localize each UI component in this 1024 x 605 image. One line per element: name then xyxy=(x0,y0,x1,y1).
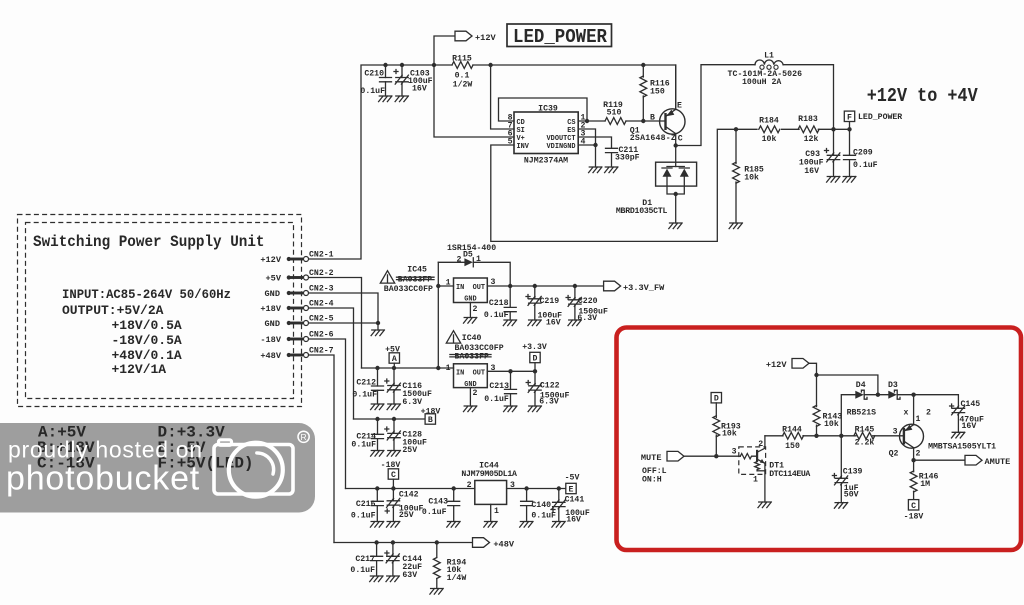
svg-text:1: 1 xyxy=(476,255,481,264)
IC40 labels xyxy=(450,334,504,362)
svg-text:C218: C218 xyxy=(489,299,509,308)
capacitor C144 xyxy=(385,543,422,581)
capacitor C143 xyxy=(422,489,460,522)
connector pin CN2-5 xyxy=(287,315,334,326)
svg-text:NJM2374AM: NJM2374AM xyxy=(524,157,568,166)
svg-text:12k: 12k xyxy=(804,134,819,144)
transistor DT1 DTC114EUA xyxy=(732,436,811,502)
svg-text:-18V/0.5A: -18V/0.5A xyxy=(112,333,182,348)
ground CN2 GND xyxy=(371,330,384,336)
svg-text:+48V: +48V xyxy=(260,351,281,361)
svg-text:0.1uF: 0.1uF xyxy=(853,161,878,170)
svg-text:C213: C213 xyxy=(489,382,509,391)
svg-text:CN2-2: CN2-2 xyxy=(309,269,334,278)
wire row B +18V xyxy=(354,418,427,420)
ground C218 xyxy=(503,320,516,326)
svg-text:+18V: +18V xyxy=(260,304,281,314)
warning triangle IC45 xyxy=(380,271,394,283)
wire bottom row +48V xyxy=(334,542,473,544)
wire IC45 out row xyxy=(487,285,603,287)
svg-text:2SA1648-Z: 2SA1648-Z xyxy=(630,134,676,143)
ground C140 xyxy=(520,522,533,528)
svg-text:6.3V: 6.3V xyxy=(539,398,559,407)
wire mute base row xyxy=(765,435,904,437)
svg-text:C143: C143 xyxy=(428,498,448,507)
capacitor C103 xyxy=(394,65,433,96)
op-amp U IC39 NJM2374AM xyxy=(508,105,586,166)
wire R119 to base node B xyxy=(626,120,666,122)
ground C217 xyxy=(370,576,383,582)
capacitor C141 xyxy=(551,489,590,525)
connector pin CN2-4 xyxy=(287,300,334,311)
legend voltages xyxy=(37,424,254,473)
connector pin CN2-3 xyxy=(287,285,334,296)
svg-text:RB521S: RB521S xyxy=(847,409,877,418)
node +48V flag xyxy=(473,538,515,550)
svg-text:50V: 50V xyxy=(844,491,859,500)
switching power supply unit outer dashed box xyxy=(18,215,302,407)
ground C143 xyxy=(447,522,460,528)
svg-text:B: B xyxy=(650,114,655,123)
wire V+ feed xyxy=(434,65,514,137)
capacitor C219 xyxy=(526,286,562,328)
wire +12V bus left with CN2-1 riser xyxy=(309,65,453,259)
svg-text:C: C xyxy=(911,502,916,511)
node D flag mute xyxy=(711,393,721,404)
svg-text:100uH 2A: 100uH 2A xyxy=(742,78,781,87)
svg-text:Q2: Q2 xyxy=(889,450,899,459)
svg-text:+12V: +12V xyxy=(260,255,281,265)
diode D5 1SR154-400 xyxy=(447,244,496,267)
wire IC45 input xyxy=(438,285,453,287)
ground C93 xyxy=(827,177,840,183)
svg-text:2: 2 xyxy=(467,481,472,490)
resistor R146 xyxy=(910,460,938,499)
wire CS-CD feedback loop xyxy=(499,98,588,121)
wire CN2-4 +18V to row B xyxy=(309,308,354,419)
diode D4 RB521S xyxy=(855,381,867,399)
svg-text:0.1uF: 0.1uF xyxy=(484,311,509,320)
svg-text:63V: 63V xyxy=(402,571,417,580)
ground R185 xyxy=(729,223,742,229)
svg-text:OUTPUT:+5V/2A: OUTPUT:+5V/2A xyxy=(62,303,164,318)
svg-text:INPUT:AC85-264V 50/60Hz: INPUT:AC85-264V 50/60Hz xyxy=(62,287,231,302)
ground C210 xyxy=(379,96,392,102)
svg-text:IN: IN xyxy=(456,284,464,292)
LED_POWER title box xyxy=(507,24,612,48)
node +12V flag mute xyxy=(766,359,809,371)
ground D1 xyxy=(669,223,682,229)
svg-text:2: 2 xyxy=(916,450,921,459)
svg-text:C209: C209 xyxy=(853,149,873,158)
inductor L1 TC-101M-2A-5026 xyxy=(728,52,803,88)
svg-text:NJM79M05DL1A: NJM79M05DL1A xyxy=(461,470,517,479)
placeholder groups xyxy=(309,24,978,259)
wire D4 cathode to junction xyxy=(864,394,888,396)
svg-text:16V: 16V xyxy=(566,516,581,525)
ground IC44 pin1 xyxy=(484,504,497,527)
node +12V flag riser xyxy=(434,36,455,65)
svg-text:CN2-6: CN2-6 xyxy=(309,331,334,340)
regulator IC40 BA033CC0FP xyxy=(446,364,496,398)
svg-text:1M: 1M xyxy=(920,480,930,489)
svg-text:1: 1 xyxy=(446,364,451,373)
svg-text:ES: ES xyxy=(567,127,575,135)
svg-text:+3.3V_FW: +3.3V_FW xyxy=(623,283,665,293)
svg-text:+18V/0.5A: +18V/0.5A xyxy=(112,318,182,333)
wire CN2-2 +5V to row A xyxy=(309,278,362,369)
resistor R185 xyxy=(733,129,764,223)
svg-text:AMUTE: AMUTE xyxy=(985,457,1011,467)
svg-text:+12V: +12V xyxy=(475,33,496,43)
capacitor C145 xyxy=(950,400,984,433)
resistor R116 xyxy=(640,65,670,121)
svg-text:C219: C219 xyxy=(540,297,560,306)
svg-text:MUTE: MUTE xyxy=(641,453,662,463)
wire CN2-5 GND xyxy=(309,322,379,324)
svg-text:GND: GND xyxy=(265,319,280,329)
svg-text:10k: 10k xyxy=(744,172,759,182)
wire switch node up to L1 xyxy=(676,65,755,146)
resistor R115 xyxy=(452,55,473,90)
svg-text:LED_POWER: LED_POWER xyxy=(858,113,902,122)
svg-text:+3.3V: +3.3V xyxy=(522,343,547,352)
wire IC45 input riser from row A xyxy=(437,262,439,368)
svg-text:16V: 16V xyxy=(546,319,561,328)
wire INV feedback xyxy=(491,129,736,241)
resistor R183 xyxy=(798,115,819,144)
watermark camera icon xyxy=(214,440,293,497)
ground C128 xyxy=(387,451,400,457)
capacitor C211 xyxy=(578,137,639,167)
wire row C -18V xyxy=(346,488,475,490)
ground C214 xyxy=(371,451,384,457)
svg-text:10k: 10k xyxy=(762,134,777,144)
svg-text:2.2k: 2.2k xyxy=(855,438,875,448)
wire D5 loop xyxy=(438,262,510,286)
svg-text:INV: INV xyxy=(517,143,530,151)
wire MUTE to DT1 xyxy=(684,455,740,457)
svg-text:0.1uF: 0.1uF xyxy=(531,512,556,521)
ground C212 xyxy=(371,404,384,410)
node MUTE flag xyxy=(641,451,684,484)
node A flag +5V xyxy=(385,346,400,369)
svg-text:C139: C139 xyxy=(843,468,863,477)
resistor R193 xyxy=(713,403,741,456)
svg-text:1: 1 xyxy=(916,415,921,424)
resistor R144 xyxy=(782,426,803,452)
ground C209 xyxy=(843,177,856,183)
svg-text:C220: C220 xyxy=(578,297,598,306)
svg-text:IC44: IC44 xyxy=(479,461,499,470)
svg-text:CN2-1: CN2-1 xyxy=(309,251,334,260)
resistor R145 xyxy=(854,426,875,448)
node +12V flag xyxy=(455,31,496,43)
regulator IC44 NJM79M05DL1A xyxy=(461,461,517,516)
svg-text:+12V/1A: +12V/1A xyxy=(112,362,167,377)
capacitor C213 xyxy=(484,371,516,406)
svg-text:16V: 16V xyxy=(962,422,977,431)
svg-text:1: 1 xyxy=(753,476,758,485)
svg-text:0.1uF: 0.1uF xyxy=(422,508,447,517)
wire D4 anode branch xyxy=(841,395,855,436)
svg-text:C217: C217 xyxy=(355,555,375,564)
svg-text:C141: C141 xyxy=(565,496,585,505)
connector pin CN2-2 xyxy=(287,269,334,280)
svg-text:0.1: 0.1 xyxy=(455,72,470,81)
svg-text:C140: C140 xyxy=(531,501,551,510)
svg-text:+5V: +5V xyxy=(266,274,282,284)
mute section red highlight box xyxy=(617,328,1022,551)
svg-text:150: 150 xyxy=(785,442,800,451)
capacitor C218 xyxy=(484,286,516,320)
svg-text:DTC114EUA: DTC114EUA xyxy=(769,470,810,479)
svg-text:C142: C142 xyxy=(399,491,419,500)
svg-text:-18V: -18V xyxy=(260,335,281,345)
watermark registered mark xyxy=(298,431,309,442)
svg-text:D4: D4 xyxy=(856,381,866,390)
svg-text:OUT: OUT xyxy=(473,369,485,377)
svg-text:CD: CD xyxy=(517,119,525,127)
svg-text:16V: 16V xyxy=(804,167,819,176)
svg-text:+48V: +48V xyxy=(493,540,514,550)
svg-text:C210: C210 xyxy=(364,70,384,79)
svg-text:IC45: IC45 xyxy=(407,266,427,275)
resistor R184 xyxy=(759,117,780,144)
svg-text:R144: R144 xyxy=(782,426,802,435)
ground C116 xyxy=(387,404,400,410)
svg-text:V+: V+ xyxy=(517,135,525,143)
svg-text:SI: SI xyxy=(517,127,525,135)
ground DT1 xyxy=(758,502,771,508)
node B flag +18V xyxy=(421,408,441,426)
ground C141 xyxy=(552,522,565,528)
svg-text:0.1uF: 0.1uF xyxy=(360,87,385,96)
svg-text:CS: CS xyxy=(567,119,575,127)
svg-text:IN: IN xyxy=(456,369,464,377)
svg-text:C216: C216 xyxy=(356,500,376,509)
svg-text:E: E xyxy=(677,102,682,111)
ground C219 xyxy=(528,320,541,326)
svg-text:C212: C212 xyxy=(356,379,376,388)
wire +12V bus right xyxy=(473,65,676,109)
SPSU pin name labels xyxy=(260,255,281,361)
capacitor C217 xyxy=(350,543,382,577)
capacitor C140 xyxy=(521,489,556,522)
svg-text:ON:H: ON:H xyxy=(642,476,662,485)
svg-text:0.1uF: 0.1uF xyxy=(350,566,375,575)
svg-text:C122: C122 xyxy=(540,382,560,391)
svg-text:Switching Power Supply Unit: Switching Power Supply Unit xyxy=(33,233,265,251)
svg-text:B: B xyxy=(428,416,433,425)
svg-text:GND: GND xyxy=(265,289,280,299)
svg-text:0.1uF: 0.1uF xyxy=(484,395,509,404)
svg-text:2: 2 xyxy=(758,440,763,449)
ground C139 xyxy=(834,503,847,509)
svg-text:D5: D5 xyxy=(463,251,473,260)
svg-text:1/4W: 1/4W xyxy=(447,573,467,583)
svg-text:F: F xyxy=(847,113,852,122)
svg-text:1: 1 xyxy=(494,507,499,516)
svg-text:+12V: +12V xyxy=(766,360,787,370)
ground C220 xyxy=(568,320,581,326)
wire CS to R119 xyxy=(578,120,605,122)
capacitor C209 xyxy=(844,129,878,176)
connector pin CN2-1 xyxy=(287,251,334,262)
svg-text:C145: C145 xyxy=(961,400,981,409)
svg-text:10k: 10k xyxy=(722,429,737,439)
svg-text:510: 510 xyxy=(607,109,622,118)
capacitor C142 xyxy=(385,489,423,522)
svg-text:OUT: OUT xyxy=(473,284,485,292)
resistor R194 xyxy=(433,543,466,589)
svg-text:LED_POWER: LED_POWER xyxy=(513,26,607,48)
connector pin CN2-7 xyxy=(287,347,334,358)
svg-text:2: 2 xyxy=(926,409,931,418)
ground R194 xyxy=(430,589,443,595)
svg-text:2: 2 xyxy=(457,256,462,265)
switching power supply unit inner dashed box xyxy=(26,223,294,399)
svg-text:R115: R115 xyxy=(452,55,472,64)
wire ES to gnd xyxy=(578,129,595,167)
svg-text:+48V/0.1A: +48V/0.1A xyxy=(112,348,182,363)
svg-text:photobucket: photobucket xyxy=(6,460,200,498)
diode D3 RB521S xyxy=(888,381,900,399)
ground C142 xyxy=(387,522,400,528)
wire L1 to F node xyxy=(783,65,833,130)
node E flag -5V xyxy=(565,474,580,495)
wire IC44 out row -5V xyxy=(507,488,566,490)
svg-text:R: R xyxy=(301,432,307,442)
wire +12V to R143/D4 xyxy=(809,363,878,394)
resistor R119 xyxy=(603,101,626,124)
node F flag LED_POWER xyxy=(844,111,902,129)
svg-text:-5V: -5V xyxy=(565,474,580,483)
svg-text:E: E xyxy=(569,486,574,495)
node +3.3V_FW flag xyxy=(604,281,665,293)
capacitor C216 xyxy=(351,489,383,522)
resistor R143 xyxy=(813,375,842,436)
svg-text:CN2-3: CN2-3 xyxy=(309,285,334,294)
transistor Q2 MMBTSA1505YLT1 xyxy=(889,424,997,458)
transistor Q1 2SA1648-Z xyxy=(630,102,685,144)
node C flag -18V mute xyxy=(904,500,924,522)
svg-text:IC40: IC40 xyxy=(462,334,482,343)
ground pins ES/GND xyxy=(589,167,602,173)
ground IC45 gnd pin xyxy=(464,303,477,324)
ground C213 xyxy=(504,406,517,412)
capacitor C214 xyxy=(351,419,383,451)
ground C122 xyxy=(528,406,541,412)
wire Q2 collector to AMUTE xyxy=(914,448,965,461)
capacitor C220 xyxy=(566,286,608,323)
IC45 labels xyxy=(384,266,434,295)
svg-text:2: 2 xyxy=(473,389,478,398)
node D flag +3.3V xyxy=(522,343,547,371)
svg-text:C: C xyxy=(678,135,683,144)
svg-text:0.1uF: 0.1uF xyxy=(351,441,376,450)
svg-text:MMBTSA1505YLT1: MMBTSA1505YLT1 xyxy=(928,443,996,452)
svg-text:R145: R145 xyxy=(855,426,875,435)
junction dots on bus xyxy=(383,63,387,67)
wire Q2 emitter riser xyxy=(913,395,915,425)
ground C144 xyxy=(386,576,399,582)
capacitor C128 xyxy=(385,419,427,455)
regulator IC45 BA033CC0FP xyxy=(446,278,496,314)
svg-text:330pF: 330pF xyxy=(615,154,640,163)
wire row A +5V xyxy=(362,367,454,369)
node AMUTE flag xyxy=(965,455,1010,467)
capacitor C116 xyxy=(385,368,432,407)
node C flag -18V xyxy=(381,461,401,489)
photobucket watermark panel xyxy=(0,423,315,513)
svg-text:L1: L1 xyxy=(764,52,774,61)
wire SI feed xyxy=(491,65,514,129)
svg-text:6.3V: 6.3V xyxy=(402,398,422,407)
capacitor C139 xyxy=(832,436,862,503)
ground C103 xyxy=(395,96,408,102)
wire CN2-6 -18V to row C xyxy=(309,339,346,489)
svg-text:VDINGND: VDINGND xyxy=(547,143,576,151)
wire CN2-7 +48V to bottom row xyxy=(309,355,335,543)
capacitor C93 xyxy=(799,129,840,176)
wire Q1 collector to switch node xyxy=(675,134,677,146)
svg-text:CN2-5: CN2-5 xyxy=(309,315,334,324)
svg-text:BA033CC0FP: BA033CC0FP xyxy=(384,285,433,294)
svg-text:R183: R183 xyxy=(798,115,818,124)
ground IC40 gnd pin xyxy=(464,388,477,412)
wire Q1 emitter to bus xyxy=(675,65,677,109)
capacitor C212 xyxy=(352,368,383,404)
svg-text:+12V to +4V: +12V to +4V xyxy=(867,85,978,107)
svg-text:150: 150 xyxy=(650,88,665,97)
svg-text:IC39: IC39 xyxy=(538,105,558,114)
svg-text:0.1uF: 0.1uF xyxy=(351,512,376,521)
capacitor C122 xyxy=(526,371,569,406)
schottky D1 MBRD1035CTL xyxy=(616,146,697,224)
SPSU spec text xyxy=(62,287,231,377)
svg-text:R184: R184 xyxy=(759,117,779,126)
svg-text:2: 2 xyxy=(473,305,478,314)
svg-text:-18V: -18V xyxy=(904,513,924,522)
svg-text:25V: 25V xyxy=(399,511,414,520)
svg-text:10k: 10k xyxy=(824,419,839,429)
svg-text:x: x xyxy=(904,409,909,418)
svg-text:VDOUTCT: VDOUTCT xyxy=(547,135,576,143)
ground C145 xyxy=(952,432,965,438)
svg-text:16V: 16V xyxy=(412,85,427,94)
svg-text:3: 3 xyxy=(732,448,737,457)
ground C216 xyxy=(370,522,383,528)
warning triangle IC40 xyxy=(446,331,460,343)
connector pin CN2-6 xyxy=(287,331,334,342)
wire CN2-3 GND down xyxy=(309,293,379,330)
wire D3 cathode to C145 xyxy=(897,395,958,409)
wire F row xyxy=(736,128,850,130)
svg-text:25V: 25V xyxy=(402,446,417,455)
capacitor C210 xyxy=(360,65,391,96)
svg-text:CN2-4: CN2-4 xyxy=(309,300,334,309)
svg-text:D3: D3 xyxy=(888,381,898,390)
svg-text:MBRD1035CTL: MBRD1035CTL xyxy=(616,207,668,216)
svg-text:CN2-7: CN2-7 xyxy=(309,347,334,356)
ground C211 xyxy=(605,167,618,173)
svg-text:0.1uF: 0.1uF xyxy=(352,391,377,400)
wire IC40 out row xyxy=(487,370,535,372)
svg-text:1/2W: 1/2W xyxy=(453,80,473,90)
